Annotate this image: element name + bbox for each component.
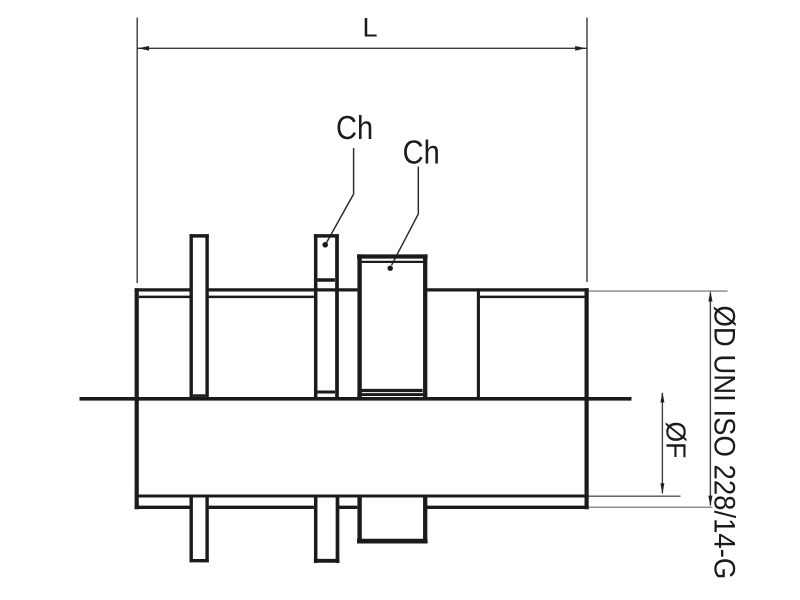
diameter D dimension line bbox=[709, 293, 711, 506]
leader line right Ch bbox=[392, 167, 419, 266]
body left edge bbox=[135, 288, 139, 509]
svg-text:Ch: Ch bbox=[403, 134, 440, 171]
flange ring top edge bbox=[190, 234, 209, 238]
hex boss bore line lower bbox=[357, 393, 427, 396]
hex boss left edge bottom bbox=[357, 497, 361, 542]
dimension L arrow right bbox=[575, 46, 586, 51]
flange ring right edge top bbox=[205, 234, 208, 399]
dimension L line bbox=[137, 47, 587, 49]
leader line left Ch bbox=[326, 148, 353, 243]
leader dot left Ch bbox=[322, 242, 328, 248]
svg-text:Ch: Ch bbox=[336, 109, 373, 146]
body right edge bbox=[584, 288, 588, 509]
hex boss top inner line bbox=[362, 261, 423, 263]
diameter F arrow down bbox=[660, 483, 664, 494]
dimension L extension line right bbox=[586, 18, 588, 283]
label Ch left bbox=[336, 109, 373, 146]
hex boss top edge bbox=[357, 254, 428, 258]
diameter D arrow down bbox=[708, 496, 712, 507]
hex boss bore line upper bbox=[362, 389, 423, 392]
diameter F extension line bottom bbox=[589, 495, 681, 497]
chamfer ring right edge bottom bbox=[336, 497, 340, 563]
body bottom outer edge segment 1 bbox=[135, 506, 190, 509]
flange ring left edge top bbox=[189, 234, 192, 399]
dimension L arrow left bbox=[138, 46, 149, 51]
label D thread bbox=[707, 306, 740, 580]
chamfer ring right edge top bbox=[335, 234, 339, 399]
chamfer ring bore line bbox=[318, 390, 336, 393]
flange ring right edge bottom bbox=[205, 497, 208, 562]
hex boss right edge top bbox=[423, 254, 427, 399]
flange ring bottom edge bbox=[190, 559, 209, 562]
shoulder line bbox=[477, 289, 480, 400]
thread bore top line segment 3 bbox=[479, 296, 585, 299]
diameter D extension line top bbox=[589, 290, 728, 292]
flange ring left edge bottom bbox=[189, 497, 192, 562]
label Ch right bbox=[403, 134, 440, 171]
diameter F arrow up bbox=[660, 392, 664, 403]
chamfer ring bottom edge bbox=[314, 559, 340, 563]
leader dot right Ch bbox=[388, 266, 393, 271]
chamfer ring top edge bbox=[314, 234, 339, 238]
chamfer ring band line bbox=[318, 278, 336, 281]
diameter D arrow up bbox=[708, 291, 712, 302]
hex boss right edge bottom bbox=[423, 497, 427, 542]
body top edge segment 2 bbox=[209, 288, 358, 291]
thread bore top line segment 2 bbox=[209, 296, 314, 299]
body top edge segment 1 bbox=[135, 288, 190, 291]
svg-text:ØD UNI ISO 228/14-G: ØD UNI ISO 228/14-G bbox=[707, 306, 740, 580]
body top edge segment 3 bbox=[427, 288, 589, 291]
svg-text:ØF: ØF bbox=[661, 422, 693, 459]
body bottom inner line bbox=[135, 494, 589, 497]
body bottom outer edge segment 2 bbox=[209, 506, 314, 509]
thread bore top line segment 1 bbox=[139, 296, 190, 299]
chamfer ring left edge top bbox=[314, 234, 318, 399]
body bottom outer edge segment 4 bbox=[427, 506, 589, 509]
chamfer ring left edge bottom bbox=[314, 497, 318, 563]
body bottom outer edge segment 3 bbox=[339, 506, 357, 509]
label F bore bbox=[661, 422, 693, 459]
centerline bbox=[80, 397, 632, 401]
svg-text:L: L bbox=[363, 13, 378, 43]
diameter F dimension line bbox=[661, 393, 663, 494]
hex boss bottom edge bbox=[357, 539, 428, 544]
dimension L extension line left bbox=[136, 18, 138, 284]
diameter D extension line bottom bbox=[589, 506, 713, 508]
hex boss left edge top bbox=[357, 254, 361, 399]
flange ring bore line bbox=[193, 394, 206, 397]
